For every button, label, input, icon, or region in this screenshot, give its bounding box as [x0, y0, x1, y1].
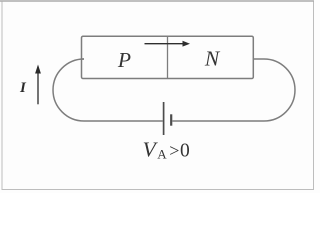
battery negative plate (short)	[170, 114, 172, 125]
wire: left loop arc	[53, 59, 84, 121]
svg-text:N: N	[204, 46, 221, 70]
svg-text:I: I	[19, 80, 27, 96]
wire: bottom right segment from battery	[172, 120, 264, 122]
battery positive plate (long)	[163, 102, 165, 135]
frame top edge (darker)	[0, 0, 314, 2]
outer frame border	[2, 1, 314, 190]
wire: right lead to N terminal	[253, 58, 264, 60]
current arrow I (left side, pointing up)	[35, 65, 41, 105]
svg-text:P: P	[117, 48, 131, 72]
wire: bottom left segment to battery	[84, 120, 163, 122]
current-direction arrow inside box	[145, 41, 191, 47]
wire: left lead from P terminal	[82, 58, 85, 60]
P-N junction divider	[167, 36, 169, 78]
wire: right loop arc	[264, 59, 295, 121]
diode body box	[82, 36, 254, 78]
